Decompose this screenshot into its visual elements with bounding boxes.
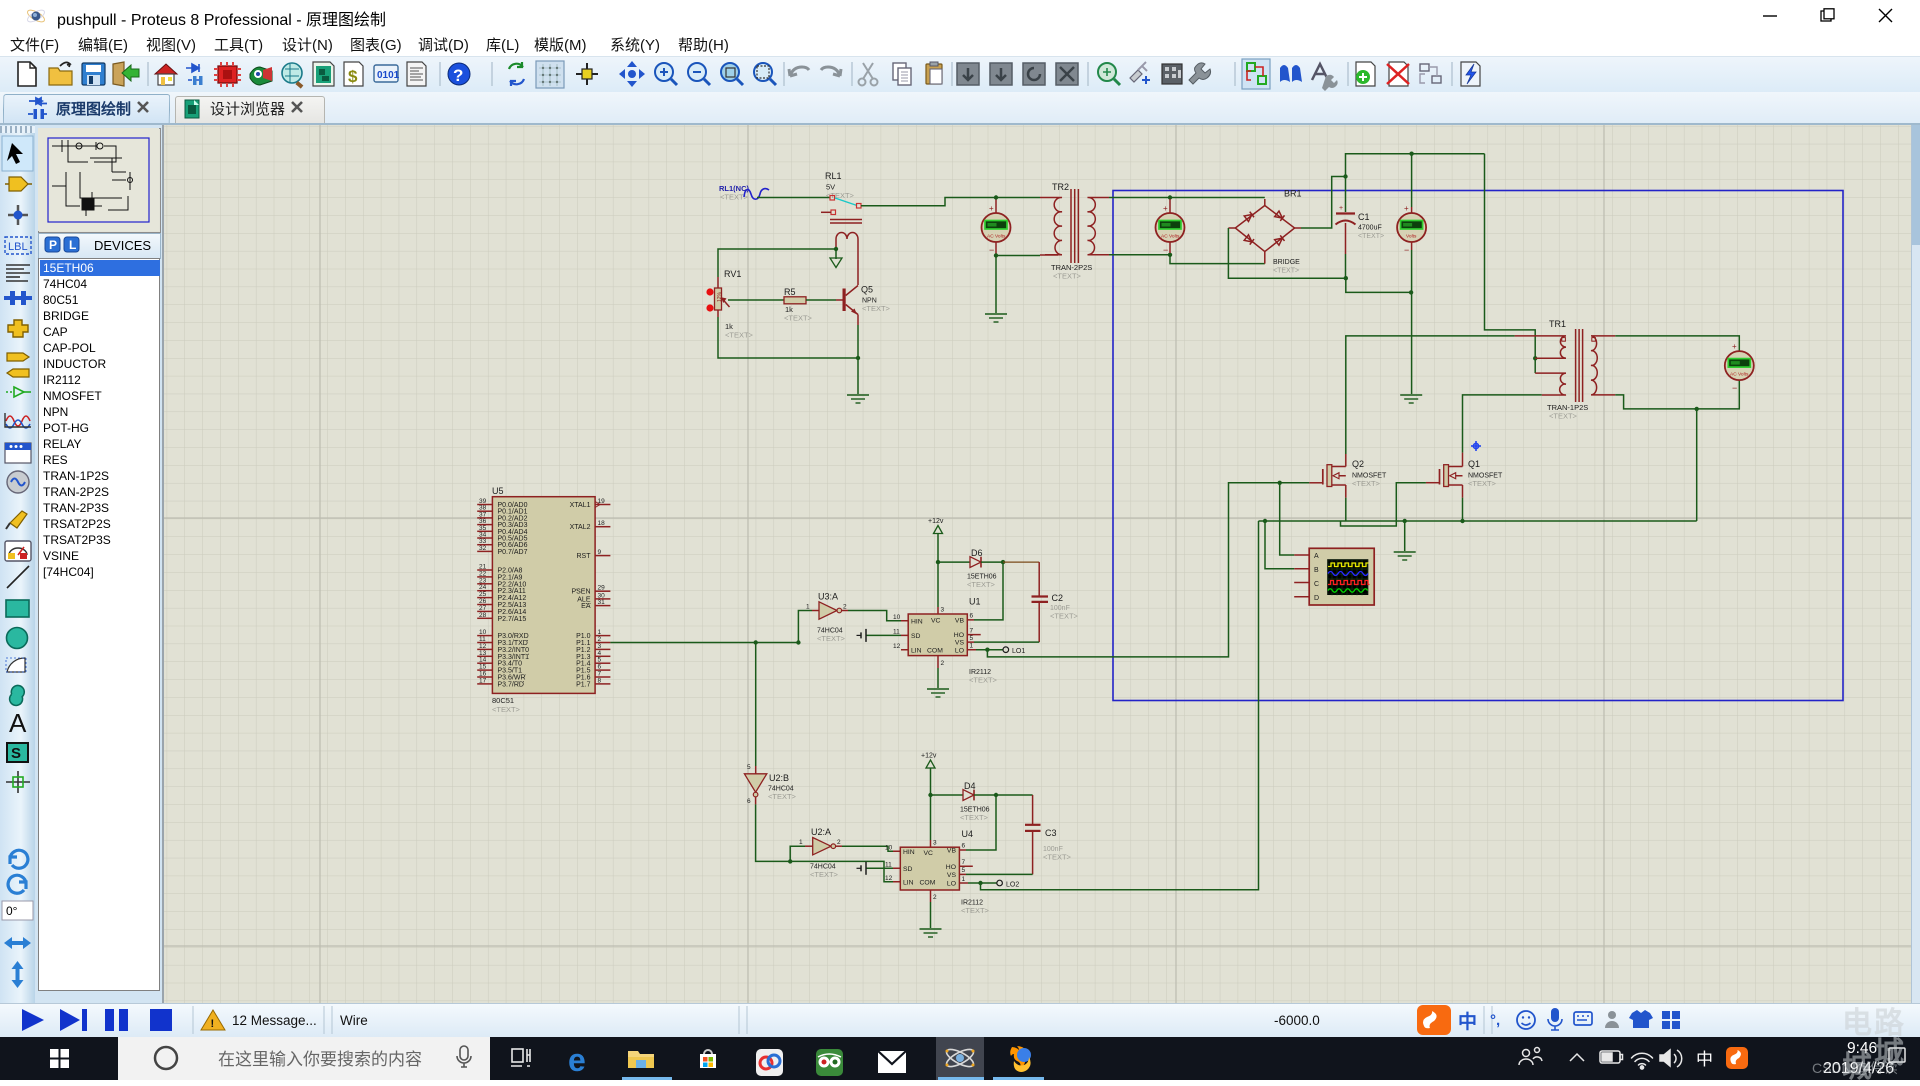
flip horizontal button	[4, 937, 31, 949]
svg-text:10: 10	[885, 845, 893, 852]
svg-text:+12v: +12v	[921, 753, 937, 760]
ground source rail	[1394, 552, 1416, 560]
junction P1.1 to U3A	[796, 640, 800, 644]
junction VM2 top	[1168, 195, 1172, 199]
wire Q5 emitter to ground	[857, 315, 859, 326]
new document icon	[18, 62, 36, 86]
svg-text:LO: LO	[947, 881, 956, 888]
power +12v U4	[921, 753, 937, 796]
wire RL1(NC) to relay switch	[757, 197, 830, 199]
svg-text:$: $	[348, 67, 358, 86]
svg-text:1: 1	[962, 876, 966, 883]
svg-text:32: 32	[479, 545, 487, 552]
wire VC	[937, 562, 939, 607]
svg-text:4700uF: 4700uF	[1358, 225, 1382, 232]
svg-text:<TEXT>: <TEXT>	[1050, 612, 1079, 621]
svg-text:<TEXT>: <TEXT>	[969, 676, 998, 685]
exit/import icon	[113, 62, 124, 86]
tools icon	[1189, 63, 1211, 84]
capacitor C1	[1336, 205, 1385, 254]
wire VM3 bottom to ground	[1411, 250, 1413, 394]
wire TR1 primary bottom to Q1 drain	[1463, 395, 1542, 453]
electrical check icon	[1461, 62, 1480, 86]
svg-text:设计浏览器: 设计浏览器	[210, 101, 285, 118]
block copy icon	[957, 63, 979, 85]
svg-text:12: 12	[885, 875, 893, 882]
property assignment icon	[1312, 64, 1328, 80]
2d marker tool	[6, 781, 30, 783]
svg-text:XTAL2: XTAL2	[570, 524, 591, 531]
svg-text:5: 5	[962, 867, 966, 874]
svg-text:28: 28	[479, 612, 487, 619]
node RL1(NC) terminal	[719, 184, 769, 202]
capacitor C3	[1025, 795, 1072, 874]
capacitor C2	[1032, 562, 1079, 642]
canvas vertical scrollbar	[1911, 125, 1920, 1003]
svg-text:LBL: LBL	[8, 241, 28, 253]
flip vertical button	[12, 961, 24, 988]
ground VM1	[985, 314, 1007, 322]
potentiometer RV1	[706, 269, 753, 340]
wire C1 bottom to ground net	[1346, 278, 1411, 292]
svg-text:HIN: HIN	[911, 618, 923, 625]
svg-text:31: 31	[598, 599, 606, 606]
svg-text:2: 2	[941, 660, 945, 667]
library browse icon	[282, 63, 302, 83]
svg-text:<TEXT>: <TEXT>	[725, 331, 754, 340]
svg-text:RV1: RV1	[724, 269, 741, 279]
relay RL1	[821, 171, 862, 285]
rotate ccw button	[8, 875, 26, 893]
svg-text:12%: 12%	[717, 291, 723, 302]
svg-text:COM: COM	[920, 879, 936, 886]
mcu U5 80C51	[492, 486, 595, 714]
wire Q2 source to rail	[1345, 498, 1347, 521]
svg-text:Q2: Q2	[1352, 459, 1364, 469]
svg-text:<TEXT>: <TEXT>	[1549, 412, 1578, 421]
wire VB riser	[974, 562, 1003, 620]
svg-text:VB: VB	[955, 618, 965, 625]
transistor Q5	[843, 285, 891, 315]
junction C1 branch	[1343, 174, 1347, 178]
junction rail ground	[1403, 519, 1407, 523]
svg-text:Wire: Wire	[340, 1013, 368, 1028]
svg-text:<TEXT>: <TEXT>	[862, 304, 891, 313]
svg-text:HO: HO	[954, 632, 964, 639]
wire TR1 secondary bottom	[1615, 381, 1739, 409]
svg-text:C: C	[1314, 581, 1319, 588]
svg-text:D: D	[1314, 595, 1319, 602]
junction VM2 bottom	[1168, 253, 1172, 257]
pcb doc icon	[313, 62, 334, 86]
junction scope B riser	[1263, 519, 1267, 523]
ground main DC	[1400, 395, 1422, 403]
node LO2	[968, 880, 1019, 888]
undo icon	[789, 67, 809, 76]
svg-text:11: 11	[885, 862, 892, 869]
voltmeter VM1 AC	[982, 199, 1011, 255]
svg-text:+: +	[1404, 204, 1409, 213]
wire U2A out to U4 HIN	[842, 846, 893, 851]
component mode tool	[9, 177, 28, 191]
resistor R5	[784, 287, 813, 323]
goto icon	[1098, 63, 1116, 81]
svg-text:P3.7/RD: P3.7/RD	[498, 681, 524, 688]
2d box tool	[6, 600, 29, 617]
signal source U1 SD	[857, 629, 902, 642]
svg-text:°,: °,	[1490, 1012, 1500, 1029]
wire D6 cathode	[981, 561, 1003, 563]
svg-text:7: 7	[970, 628, 974, 635]
svg-text:<TEXT>: <TEXT>	[1053, 272, 1082, 281]
block delete icon	[1056, 63, 1078, 85]
cut icon	[863, 63, 873, 79]
svg-text:<TEXT>: <TEXT>	[810, 870, 839, 879]
svg-text:7: 7	[962, 859, 966, 866]
voltmeter VM2 AC	[1156, 199, 1185, 255]
voltmeter VM4 AC	[1725, 342, 1754, 393]
new part icon	[1130, 70, 1142, 82]
svg-text:R5: R5	[784, 287, 796, 297]
svg-text:RL1: RL1	[825, 171, 842, 181]
wire P1.1 down to U2B	[755, 643, 757, 767]
svg-text:<TEXT>: <TEXT>	[1043, 853, 1072, 862]
junction TR1 centre tap	[1533, 356, 1537, 360]
wire U3A input riser	[798, 611, 812, 643]
diode D6	[938, 548, 997, 589]
wire R5 to Q5 base	[806, 299, 836, 301]
wire RV1 bottom leg	[718, 317, 857, 358]
svg-text:+: +	[1163, 204, 1168, 213]
signal source U4 SD	[857, 862, 894, 875]
home icon	[155, 64, 177, 74]
junction VM3 top	[1409, 152, 1413, 156]
svg-text:D4: D4	[964, 781, 976, 791]
wire C2 to VS	[974, 641, 1039, 643]
svg-text:U3:A: U3:A	[818, 592, 838, 602]
svg-text:−: −	[1163, 245, 1168, 255]
wire Q1 source to rail	[1462, 498, 1464, 521]
wire source rail	[1259, 520, 1697, 522]
svg-text:COM: COM	[927, 647, 943, 654]
inverter U3:A	[806, 592, 848, 644]
wire LIN net to U4	[790, 861, 893, 881]
svg-text:2: 2	[837, 839, 841, 846]
junction scope A tap	[1278, 481, 1282, 485]
wire C1 bottom	[1345, 254, 1347, 278]
wire relay to TR2	[861, 198, 1040, 206]
wire RV1 wiper to R5	[728, 299, 784, 301]
open folder icon	[49, 68, 72, 85]
remove sheet icon	[1389, 62, 1408, 86]
wire D4 cathode	[974, 794, 1033, 796]
svg-text:LO: LO	[955, 647, 964, 654]
svg-text:6: 6	[747, 798, 751, 805]
svg-text:VC: VC	[931, 618, 941, 625]
svg-text:P0.7/AD7: P0.7/AD7	[498, 549, 528, 556]
svg-text:U1: U1	[969, 597, 981, 607]
svg-text:1: 1	[970, 643, 974, 650]
driver U1 IR2112	[893, 597, 998, 685]
svg-text:!: !	[211, 1018, 215, 1030]
svg-text:5: 5	[747, 764, 751, 771]
svg-text:11: 11	[893, 629, 900, 636]
ground U4 COM	[930, 902, 932, 928]
svg-text:1: 1	[806, 604, 810, 611]
terminal mode	[7, 353, 29, 361]
inverter U2:A	[790, 827, 842, 879]
2d symbol tool	[7, 743, 28, 762]
svg-text:AC Volts: AC Volts	[1730, 372, 1749, 378]
bridge rectifier BR1	[1228, 189, 1301, 275]
transformer TR2	[1040, 182, 1109, 281]
U5 left pins	[477, 505, 492, 684]
wire centre tap lower	[1534, 358, 1536, 373]
junction Q5 emitter	[856, 356, 860, 360]
svg-text:<TEXT>: <TEXT>	[768, 792, 797, 801]
svg-text:<TEXT>: <TEXT>	[960, 813, 989, 822]
svg-text:9: 9	[598, 549, 602, 556]
transformer TR1	[1515, 319, 1616, 421]
block move icon	[990, 63, 1012, 85]
ground Q5 emitter	[847, 395, 869, 403]
junction dot mode	[8, 214, 28, 217]
graph mode	[6, 416, 30, 426]
junction VM3 bottom	[1409, 290, 1413, 294]
svg-text:+: +	[989, 204, 994, 213]
2d line tool	[7, 566, 29, 588]
svg-text:<TEXT>: <TEXT>	[1273, 268, 1299, 275]
svg-text:中: 中	[1458, 1010, 1477, 1033]
svg-text:−: −	[1732, 383, 1737, 393]
make device icon	[1162, 64, 1182, 84]
schematic capture icon	[186, 64, 199, 72]
voltage probe mode	[10, 511, 27, 528]
svg-text:VS: VS	[947, 872, 957, 879]
wire autorouter icon (selected)	[1242, 59, 1270, 89]
svg-text:原理图绘制: 原理图绘制	[56, 100, 131, 118]
3d view icon	[250, 67, 272, 85]
selection arrow tool	[7, 143, 23, 164]
transistor Q1	[1426, 453, 1503, 498]
svg-text:8: 8	[598, 677, 602, 684]
svg-text:<TEXT>: <TEXT>	[784, 314, 813, 323]
svg-text:6: 6	[970, 613, 974, 620]
svg-text:1: 1	[799, 839, 803, 846]
generator mode	[7, 471, 29, 493]
bom icon	[344, 62, 363, 86]
svg-text:RST: RST	[577, 553, 592, 560]
svg-text:−: −	[1404, 245, 1409, 255]
grid toggle icon (pressed)	[536, 61, 564, 88]
2d path tool	[6, 684, 28, 708]
node LO1	[976, 647, 1025, 655]
svg-text:Q1: Q1	[1468, 459, 1480, 469]
svg-text:12: 12	[893, 643, 901, 650]
junction VM1 bottom	[994, 253, 998, 257]
sheet border box	[1113, 191, 1843, 701]
svg-text:L: L	[69, 238, 76, 252]
subcircuit mode	[8, 320, 28, 337]
svg-text:S: S	[11, 745, 21, 762]
search icon	[1280, 65, 1290, 82]
junction U2A input	[788, 859, 792, 863]
svg-text:-6000.0: -6000.0	[1274, 1013, 1320, 1028]
diode D4	[931, 781, 990, 822]
chip/ares icon	[218, 66, 237, 83]
svg-text:e: e	[568, 1042, 586, 1078]
junction C1 bottom	[1344, 276, 1348, 280]
svg-text:BR1: BR1	[1284, 189, 1302, 199]
rotate cw button	[10, 850, 28, 868]
svg-text:<TEXT>: <TEXT>	[1468, 479, 1497, 488]
help icon	[448, 63, 470, 85]
svg-text:PSEN: PSEN	[571, 589, 590, 596]
wire VM1 to ground	[995, 256, 997, 314]
device pin mode	[14, 387, 24, 397]
wire LO1 to Q2 gate	[987, 483, 1309, 657]
svg-text:DEVICES: DEVICES	[94, 238, 151, 253]
svg-text:中: 中	[1696, 1050, 1713, 1069]
svg-text:VB: VB	[947, 848, 957, 855]
svg-text:XTAL1: XTAL1	[570, 502, 591, 509]
svg-text:0°: 0°	[6, 904, 18, 918]
svg-text:U5: U5	[492, 486, 504, 496]
zoom area icon	[721, 63, 739, 81]
zoom in icon	[655, 63, 673, 81]
voltmeter VM3 DC	[1397, 204, 1426, 255]
wire P1.1 bus	[610, 642, 798, 644]
wire to C2	[1003, 561, 1039, 563]
svg-text:D6: D6	[971, 548, 983, 558]
svg-text:VS: VS	[955, 640, 965, 647]
wire U4 VB riser	[966, 795, 996, 850]
svg-text:SD: SD	[903, 866, 913, 873]
wire Q1 gate path from LO2	[1341, 483, 1426, 526]
svg-text:TR2: TR2	[1052, 182, 1069, 192]
wire scope A input	[1280, 483, 1295, 555]
junction U1 VC / D6	[936, 560, 940, 564]
design notes icon	[407, 62, 426, 86]
ground U1 COM	[937, 668, 939, 688]
svg-text:−: −	[989, 245, 994, 255]
wire rail ground drop	[1404, 521, 1406, 551]
origin marker cursor	[1471, 441, 1481, 451]
svg-text:SD: SD	[911, 633, 921, 640]
svg-text:HIN: HIN	[903, 849, 915, 856]
wire VM3 top riser	[1411, 154, 1413, 207]
wire DC plus rail top	[1346, 154, 1485, 212]
junction D6/C2/VB	[1001, 560, 1005, 564]
svg-text:29: 29	[598, 585, 606, 592]
zoom extents icon	[754, 63, 772, 81]
svg-text:5: 5	[970, 635, 974, 642]
svg-text:3: 3	[933, 840, 937, 847]
copy icon	[893, 63, 906, 80]
svg-text:+: +	[1339, 205, 1343, 212]
bus mode	[4, 296, 32, 300]
wire TR1 secondary top to VM4	[1615, 336, 1739, 351]
svg-text:BRIDGE: BRIDGE	[1273, 259, 1300, 266]
power +12v U1	[928, 518, 944, 562]
svg-text:+: +	[1732, 342, 1737, 351]
svg-text:<TEXT>: <TEXT>	[817, 634, 846, 643]
svg-text:?: ?	[453, 66, 463, 85]
junction VM1 top	[994, 195, 998, 199]
svg-text:Volts: Volts	[1406, 234, 1417, 240]
junction Q1 source	[1460, 519, 1464, 523]
svg-text:HO: HO	[946, 864, 956, 871]
wire secondary return to source rail	[1696, 409, 1698, 521]
svg-text:Q5: Q5	[861, 285, 873, 295]
wire TR1 primary top to Q2 drain	[1346, 336, 1515, 454]
wire VM1 bottom to TR2	[996, 255, 1040, 257]
junction VM4 bottom net	[1695, 407, 1699, 411]
wire U2B out to LIN net	[756, 804, 791, 861]
svg-text:C3: C3	[1045, 828, 1057, 838]
svg-text:C2: C2	[1052, 593, 1064, 603]
wire LO2 to Q1 gate riser	[981, 521, 1259, 890]
block rotate icon	[1023, 63, 1045, 85]
ground terminal below relay coil	[835, 249, 837, 259]
origin icon	[576, 73, 598, 75]
svg-text:18: 18	[598, 520, 606, 527]
svg-text:A: A	[1314, 553, 1319, 560]
wire U3A out to U1 HIN	[848, 611, 901, 621]
svg-text:<TEXT>: <TEXT>	[1352, 479, 1381, 488]
svg-text:P1.7: P1.7	[576, 681, 591, 688]
svg-text:AC Volts: AC Volts	[1161, 234, 1180, 240]
svg-text:U4: U4	[962, 829, 974, 839]
svg-text:LO1: LO1	[1012, 648, 1025, 655]
junction relay coil/ground	[834, 247, 838, 251]
svg-text:<TEXT>: <TEXT>	[961, 906, 990, 915]
svg-text:17: 17	[479, 677, 487, 684]
zoom out icon	[688, 63, 706, 81]
svg-text:U2:B: U2:B	[769, 773, 789, 783]
svg-text:<TEXT>: <TEXT>	[492, 705, 521, 714]
label mode	[5, 237, 31, 254]
svg-text:2: 2	[843, 604, 847, 611]
svg-text:P2.7/A15: P2.7/A15	[498, 616, 527, 623]
oscilloscope	[1294, 548, 1374, 605]
wire DC plus to TR1 centre tap	[1485, 154, 1536, 359]
refresh icon	[509, 62, 523, 69]
svg-text:P: P	[49, 238, 57, 252]
wire C3 to U4 VS	[966, 873, 1033, 875]
svg-text:B: B	[1314, 567, 1319, 574]
binary icon	[374, 65, 398, 82]
wire bridge plus to C1 net	[1301, 177, 1346, 229]
wire scope B input	[1265, 521, 1294, 569]
svg-text:U2:A: U2:A	[811, 827, 831, 837]
svg-text:12 Message...: 12 Message...	[232, 1013, 317, 1028]
svg-text:10: 10	[893, 614, 901, 621]
svg-text:6: 6	[962, 843, 966, 850]
svg-text:VC: VC	[924, 850, 934, 857]
svg-text:0101: 0101	[377, 70, 400, 81]
wire TR2 secondary bottom to bridge	[1109, 255, 1265, 264]
svg-text:80C51: 80C51	[492, 696, 514, 705]
wire TR2 secondary top to bridge	[1109, 197, 1265, 199]
2d circle tool	[7, 628, 28, 649]
svg-text:C1: C1	[1358, 212, 1370, 222]
wire relay coil left leg	[718, 249, 836, 277]
svg-text:LIN: LIN	[903, 879, 914, 886]
current probe mode	[5, 541, 31, 561]
junction U4 VC / D4	[928, 793, 932, 797]
junction D4/C3/VB	[994, 793, 998, 797]
